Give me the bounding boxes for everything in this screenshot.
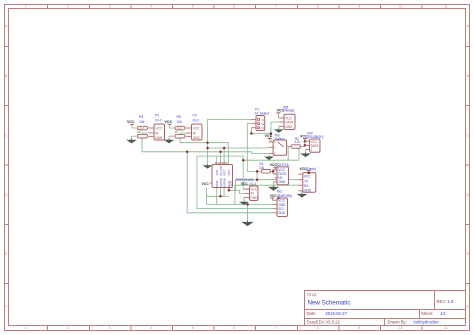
wire IO-1 gnd (243, 197, 245, 200)
svg-text:8: 8 (317, 5, 319, 9)
svg-text:IN: IN (262, 122, 265, 126)
svg-text:8: 8 (317, 326, 319, 330)
svg-text:VCC: VCC (193, 126, 200, 130)
svg-text:F: F (5, 305, 7, 309)
ground (IO-1) (241, 201, 248, 205)
junction gnd bus (246, 203, 249, 206)
svg-text:2019-02-27: 2019-02-27 (326, 311, 348, 316)
svg-text:11: 11 (444, 5, 448, 9)
wire GPIO net vertical to IO-1 (243, 156, 249, 189)
svg-text:3: 3 (109, 326, 111, 330)
frame row letters right (467, 24, 470, 309)
svg-text:2: 2 (67, 326, 69, 330)
svg-text:E: E (467, 252, 469, 256)
sensor DHT11 (273, 163, 290, 185)
VCC net flag (Flash) (299, 167, 310, 173)
svg-text:9: 9 (358, 5, 360, 9)
svg-text:Sheet:: Sheet: (421, 311, 433, 316)
ground (relay) (275, 128, 282, 132)
frame row letters left (5, 24, 8, 309)
wire R1 tap down to TX (256, 171, 258, 179)
svg-text:(Flash): (Flash) (306, 167, 317, 171)
wire switch right u-loop (287, 146, 289, 160)
svg-text:(DHT11): (DHT11) (277, 163, 290, 167)
wire ESP VCC to IO-1 (229, 190, 245, 193)
junction GPIO net (242, 159, 245, 162)
wire DS18B20 VCC vertical (304, 141, 306, 146)
resistor (IO-2 lower) (175, 134, 185, 138)
svg-text:OUT: OUT (177, 126, 183, 130)
wire RX to flash header (235, 185, 299, 204)
svg-text:(DS18B20): (DS18B20) (307, 135, 324, 139)
resistor R2 4.7k (291, 137, 301, 148)
svg-text:VCC: VCC (241, 182, 249, 186)
svg-text:4: 4 (150, 326, 152, 330)
svg-text:3: 3 (109, 5, 111, 9)
svg-text:1N: 1N (137, 130, 140, 134)
svg-text:1.0: 1.0 (448, 299, 454, 304)
wire relay DATA vertical (269, 122, 272, 142)
junction gnd rail (206, 147, 209, 150)
svg-text:TITLE:: TITLE: (307, 293, 318, 297)
connector P3 IO-2 (185, 114, 202, 141)
svg-text:(Relay): (Relay) (284, 108, 295, 112)
frame row ticks left (5, 47, 9, 284)
VCC net flag (relay) (277, 108, 285, 114)
svg-text:Switch: Switch (275, 137, 285, 141)
wire P1 pin3 branch (251, 128, 271, 134)
connector P1 S1-Select (252, 108, 270, 131)
svg-text:6: 6 (233, 326, 235, 330)
wire ESP pin1 loop to SCL bus (197, 156, 273, 209)
svg-text:F: F (467, 305, 469, 309)
wire relay GND (278, 126, 281, 128)
ground (ESP left) (204, 164, 211, 168)
svg-text:R4: R4 (139, 115, 143, 119)
svg-text:4: 4 (150, 5, 152, 9)
junction ESP pin2 (219, 151, 222, 154)
junction rail/SDA (186, 151, 189, 154)
svg-text:GND: GND (251, 196, 259, 200)
svg-text:1: 1 (311, 148, 313, 152)
svg-text:10: 10 (399, 326, 403, 330)
sensor IN2 BME280 (272, 194, 292, 217)
svg-text:4.7k: 4.7k (294, 140, 300, 144)
VCC net flag (DHT11) (270, 163, 278, 170)
wire P1 pin1 gnd rail (208, 120, 252, 166)
ground (DS18B20) (302, 152, 310, 156)
svg-text:2: 2 (67, 5, 69, 9)
junction DHT11 DATA (272, 170, 275, 173)
svg-text:EasyEDA V5.8.22: EasyEDA V5.8.22 (307, 320, 341, 325)
junction P1 pin3 (250, 132, 253, 135)
wire SDA drop (187, 152, 272, 213)
wire rail GPIO0 net (208, 147, 269, 149)
svg-text:10k: 10k (259, 166, 265, 170)
svg-text:Drawn By:: Drawn By: (388, 320, 407, 325)
wire ESP top stubs (216, 148, 224, 165)
wire GPIO net horizontal (243, 159, 299, 161)
resistor R5 10k (175, 115, 185, 130)
ground (DHT11) (270, 186, 278, 190)
connector IO-1 (244, 182, 258, 200)
label IN4 DS18B20 (307, 131, 324, 139)
junction R1 left (256, 170, 259, 173)
frame column ticks bottom (48, 326, 423, 331)
svg-text:VCC: VCC (304, 174, 311, 178)
svg-text:VCC: VCC (227, 169, 231, 175)
svg-text:10k: 10k (177, 120, 183, 124)
svg-text:P3: P3 (193, 114, 197, 118)
wire DS18B20 gnd (305, 149, 307, 152)
svg-text:11: 11 (444, 326, 448, 330)
junction TX tap (256, 178, 259, 181)
svg-text:1: 1 (25, 5, 27, 9)
resistor R4 10k (138, 115, 148, 130)
svg-text:10k: 10k (139, 120, 145, 124)
svg-text:B: B (467, 74, 469, 78)
svg-text:IO-1: IO-1 (250, 182, 257, 186)
svg-text:1/1: 1/1 (440, 311, 446, 316)
svg-text:S1-Select: S1-Select (254, 112, 269, 116)
ground (flash) (298, 193, 306, 197)
wire relay DATA stub (271, 121, 280, 123)
wire ESP bottom loop horizontal (207, 195, 229, 197)
ground (IO-2 block) (165, 136, 173, 143)
svg-text:ESP8266: ESP8266 (215, 161, 228, 165)
wire IO-2 IN net to ESP (180, 133, 228, 165)
wire IO-2 VCC lead (170, 124, 175, 128)
frame column numbers bottom (25, 326, 448, 330)
frame row ticks right (466, 47, 470, 284)
svg-text:GND: GND (285, 125, 293, 129)
svg-text:DATA: DATA (285, 121, 294, 125)
wire relay VCC (279, 114, 280, 118)
wire IO-2 gnd lead (169, 135, 174, 137)
junction DS18B20 DATA (304, 144, 307, 147)
svg-text:7: 7 (275, 5, 277, 9)
VCC net flag (BME280) (270, 194, 278, 200)
VCC net flag (IO-0 block) (127, 120, 135, 124)
wire GND bus (207, 203, 273, 205)
svg-text:VCC: VCC (127, 120, 135, 124)
wire IO-0 VCC lead (132, 124, 137, 128)
svg-text:5: 5 (192, 5, 194, 9)
svg-text:1N: 1N (175, 130, 178, 134)
wire switch gnd (268, 154, 270, 157)
switch IN3 (269, 134, 287, 156)
svg-text:P2: P2 (155, 114, 159, 118)
svg-text:Date:: Date: (307, 311, 317, 316)
svg-text:SDA: SDA (278, 211, 285, 215)
ESP VCC red stub (228, 188, 230, 191)
wire R2 leads (289, 147, 305, 161)
junction block2 crossing (206, 142, 208, 144)
module U1 ESP-01 (212, 161, 233, 187)
junction DS18B20 VCC (304, 140, 307, 143)
svg-text:hobbydrucker: hobbydrucker (414, 320, 440, 325)
wire main gnd stem (247, 204, 249, 220)
frame column numbers top (25, 5, 448, 9)
svg-text:10: 10 (399, 5, 403, 9)
svg-text:VCC: VCC (165, 120, 173, 124)
junction BME280 VCC (277, 197, 279, 199)
resistor (IO-0 lower) (138, 134, 148, 138)
svg-text:B: B (5, 74, 7, 78)
wire flash GND (299, 191, 303, 193)
svg-text:IO-0: IO-0 (155, 119, 162, 123)
svg-text:VCC: VCC (265, 134, 273, 138)
wire TX to flash header (236, 180, 299, 191)
ground (main, large) (243, 221, 252, 226)
svg-text:REV:: REV: (437, 299, 447, 304)
VCC net flag (switch) (265, 134, 273, 140)
junction ESP pin3 (223, 147, 226, 150)
svg-text:5: 5 (192, 326, 194, 330)
svg-text:VCC: VCC (229, 180, 233, 186)
svg-text:E: E (5, 252, 7, 256)
connector P2 IO-0 (148, 114, 165, 141)
junction flash VCC (308, 172, 311, 175)
VCC net flag (IO-2 block) (165, 120, 173, 124)
svg-text:7: 7 (275, 326, 277, 330)
wire rail GPIO2 net (142, 152, 269, 154)
wire IO-0 gnd lead (132, 135, 137, 137)
wire P1 pin2 to R1 (247, 124, 261, 172)
svg-text:GND: GND (278, 180, 286, 184)
ground (IO-0 block) (128, 136, 136, 143)
junction ESP VCC (228, 189, 231, 192)
svg-text:GND: GND (193, 136, 201, 140)
svg-text:IO: IO (262, 118, 265, 122)
ESP left VCC pin (202, 182, 213, 186)
svg-text:GND: GND (304, 189, 312, 193)
junction relay-switch (270, 132, 273, 135)
frame column ticks top (48, 5, 423, 9)
wire ESP bottom stubs (217, 188, 224, 205)
svg-text:GND: GND (155, 136, 163, 140)
svg-text:OUT: OUT (139, 126, 145, 130)
svg-text:9: 9 (358, 326, 360, 330)
wire R1 right to DHT11 DATA (271, 171, 278, 173)
svg-text:New Schematic: New Schematic (308, 300, 351, 307)
svg-text:6: 6 (233, 5, 235, 9)
VCC net flag (IO-1) (241, 182, 249, 186)
resistor R1 10k (259, 162, 271, 173)
junction bottom loop (219, 195, 222, 198)
svg-text:R5: R5 (177, 115, 181, 119)
wire IO-0 IN net down (142, 133, 149, 152)
svg-text:VCC: VCC (202, 182, 210, 186)
svg-text:IO: IO (262, 126, 265, 130)
svg-text:IO-2: IO-2 (193, 119, 200, 123)
ground (switch) (266, 156, 273, 160)
wire ESP bottom loop (206, 188, 208, 205)
title block outline (305, 291, 466, 326)
svg-text:VCC: VCC (155, 126, 162, 130)
sensor IN4 DS18B20 (305, 139, 320, 152)
svg-text:1: 1 (25, 326, 27, 330)
wire DHT11 VCC (273, 169, 276, 171)
connector flash programming header (299, 173, 316, 193)
connector IN5 Relay (280, 105, 296, 129)
wire DHT11 GND (273, 182, 275, 186)
VCC net flag (DS18B20) (300, 134, 308, 141)
